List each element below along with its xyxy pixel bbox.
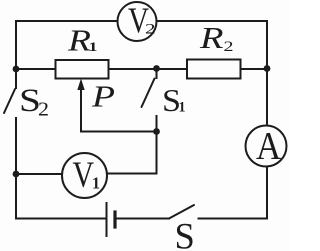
- ammeter A1: [246, 126, 287, 167]
- wire top rail right of V2: [157, 20, 267, 22]
- wire left rail upper: [15, 21, 17, 88]
- svg-text:P: P: [91, 79, 115, 114]
- node junction left rail / rail2: [13, 66, 20, 73]
- switch S2 blade: [4, 89, 15, 113]
- wire left rail lower: [15, 118, 17, 219]
- switch S blade: [169, 205, 194, 219]
- wire wiper P to node D: [81, 86, 157, 132]
- svg-text:R: R: [199, 20, 224, 55]
- bottom rail left to battery: [16, 218, 106, 220]
- svg-text:1: 1: [92, 173, 100, 192]
- battery BT1 short plate: [113, 212, 116, 227]
- svg-text:V: V: [73, 155, 95, 196]
- svg-text:S: S: [175, 216, 195, 251]
- svg-text:1: 1: [179, 100, 186, 116]
- battery BT1 long plate: [106, 203, 108, 236]
- voltmeter V1: [62, 153, 107, 198]
- wire node E to V1: [16, 173, 62, 175]
- switch S1 lower stub: [156, 116, 158, 132]
- svg-text:2: 2: [38, 99, 49, 120]
- voltmeter V2: [118, 2, 157, 41]
- right rail upper: [266, 21, 268, 126]
- svg-text:R: R: [67, 23, 91, 58]
- wire node D down to V1 row: [107, 132, 157, 174]
- node junction right rail / rail2: [264, 65, 271, 72]
- wire battery to switch S: [115, 218, 169, 220]
- svg-text:1: 1: [89, 40, 98, 54]
- svg-text:2: 2: [145, 22, 156, 38]
- wire top rail left of V2: [16, 20, 117, 22]
- wiper P arrowhead: [77, 79, 84, 91]
- right rail lower: [266, 167, 268, 219]
- wire R2 to node C: [241, 68, 268, 70]
- switch S1 upper stub: [156, 69, 158, 79]
- bottom rail right: [199, 218, 268, 220]
- node junction left rail / V1: [13, 171, 20, 178]
- wire R1 to node B: [109, 68, 157, 70]
- switch S1 blade: [142, 79, 155, 108]
- resistor R2: [187, 60, 241, 79]
- node junction S1 top on rail2: [153, 65, 160, 72]
- wire rail2 left segment: [16, 68, 56, 70]
- svg-text:A: A: [256, 124, 282, 168]
- wire node B to R2: [157, 68, 188, 70]
- resistor R1 (rheostat body): [56, 60, 109, 79]
- node junction wiper/S1/V1: [153, 128, 160, 135]
- svg-text:2: 2: [224, 39, 234, 55]
